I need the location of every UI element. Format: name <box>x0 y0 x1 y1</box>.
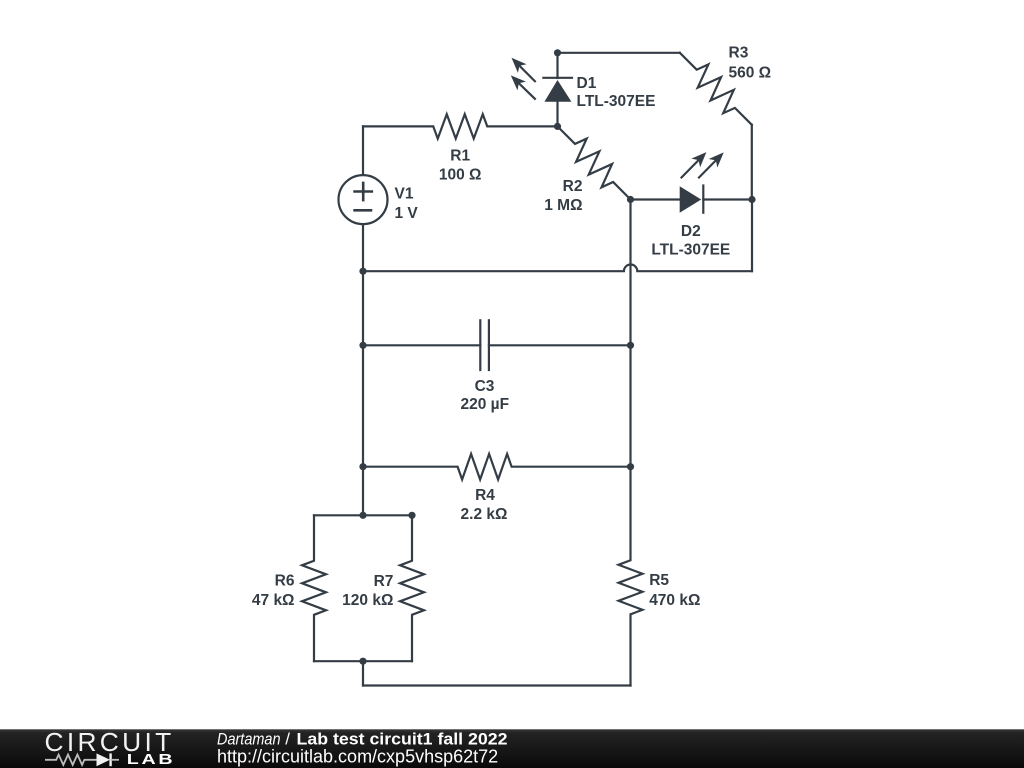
label D2 <box>651 223 730 259</box>
svg-text:LTL-307EE: LTL-307EE <box>577 93 656 110</box>
label R7 <box>342 573 393 609</box>
svg-text:R3: R3 <box>729 45 749 62</box>
footer bar <box>0 729 1024 768</box>
LED D2 <box>631 152 753 213</box>
svg-text:120 kΩ: 120 kΩ <box>342 592 393 609</box>
node R1/D1/R2 <box>554 123 561 130</box>
junction nodes <box>359 49 755 665</box>
resistor R4 <box>363 454 631 480</box>
svg-text:R7: R7 <box>374 573 394 590</box>
svg-text:D2: D2 <box>681 223 701 240</box>
node R4 left <box>359 463 366 470</box>
resistor R2 (diagonal) <box>558 126 631 199</box>
node C3 left <box>359 342 366 349</box>
node V1 bottom rail <box>359 268 366 275</box>
label R5 <box>649 572 700 609</box>
svg-text:C3: C3 <box>475 378 495 395</box>
svg-text:R5: R5 <box>649 572 669 589</box>
wire top to R3 <box>558 52 680 54</box>
resistor R3 (diagonal) <box>680 53 752 125</box>
capacitor C3 <box>363 320 631 370</box>
resistor R7 (vertical) <box>400 515 424 661</box>
wire R3 to D2 right <box>751 125 753 200</box>
resistor R6 (vertical) <box>302 515 326 661</box>
voltage source V1 <box>339 175 388 224</box>
wire right rail C3 to R4 <box>629 345 631 466</box>
label V1 <box>395 186 419 222</box>
wire V1 bottom down left rail <box>362 224 364 515</box>
svg-text:LAB: LAB <box>127 752 176 768</box>
label R3 <box>729 45 772 82</box>
svg-text:2.2 kΩ: 2.2 kΩ <box>461 506 508 523</box>
svg-text:http://circuitlab.com/cxp5vhsp: http://circuitlab.com/cxp5vhsp62t72 <box>217 747 498 767</box>
label D1 <box>577 75 656 110</box>
wire bottom rail <box>363 684 631 686</box>
svg-text:R4: R4 <box>475 487 495 504</box>
svg-text:1 MΩ: 1 MΩ <box>544 197 582 214</box>
node D1 top <box>554 49 561 56</box>
node R4 right <box>627 463 634 470</box>
node C3 right <box>627 342 634 349</box>
svg-text:1 V: 1 V <box>395 205 419 222</box>
svg-text:R6: R6 <box>275 572 295 589</box>
label R1 <box>439 148 482 184</box>
svg-text:220 µF: 220 µF <box>461 396 510 413</box>
label R2 <box>544 178 582 214</box>
svg-text:R2: R2 <box>563 178 583 195</box>
node R2/D2 <box>627 196 634 203</box>
CircuitLab logo resistor-diode glyph <box>45 753 119 766</box>
label R4 <box>461 487 508 523</box>
LED D1 <box>511 53 572 127</box>
wire bottom left down <box>362 661 364 685</box>
svg-text:V1: V1 <box>395 186 414 203</box>
svg-text:R1: R1 <box>450 148 470 165</box>
wire R6R7 top rail <box>314 514 412 516</box>
wire D2 left down through hop <box>629 200 631 346</box>
wire V1 top lead <box>362 126 364 175</box>
node R7 top corner <box>408 512 415 519</box>
node R6R7 top <box>359 512 366 519</box>
wire D2 right down <box>751 200 753 272</box>
node R6R7 bottom <box>359 658 366 665</box>
svg-text:470 kΩ: 470 kΩ <box>649 592 700 609</box>
svg-text:47 kΩ: 47 kΩ <box>252 592 295 609</box>
label C3 <box>461 378 510 413</box>
node D2/R3 <box>748 196 755 203</box>
wire bottom rail with hop <box>363 265 752 272</box>
label R6 <box>252 572 295 609</box>
svg-text:LTL-307EE: LTL-307EE <box>651 242 730 259</box>
resistor R1 <box>363 114 558 138</box>
wire R6R7 bottom rail <box>314 660 412 662</box>
resistor R5 (vertical) <box>619 467 643 686</box>
svg-text:D1: D1 <box>577 75 597 92</box>
svg-text:560 Ω: 560 Ω <box>729 65 772 82</box>
svg-text:100 Ω: 100 Ω <box>439 167 482 184</box>
